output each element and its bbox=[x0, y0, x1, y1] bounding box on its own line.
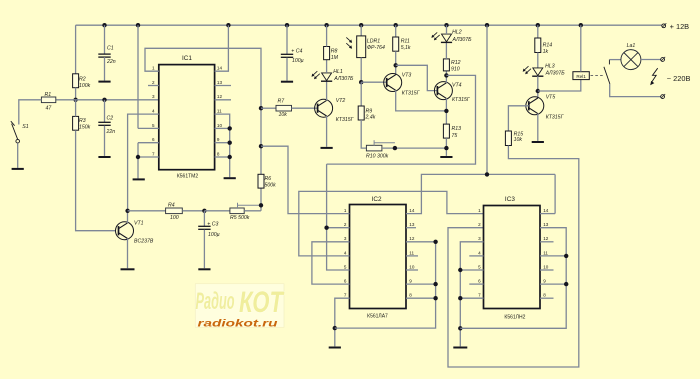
wire R9 to R10 bbox=[361, 120, 366, 148]
svg-text:2,4k: 2,4k bbox=[365, 115, 376, 121]
svg-text:4: 4 bbox=[152, 109, 155, 114]
ground VT2 bbox=[321, 147, 333, 149]
wire rail to R11 bbox=[395, 25, 397, 37]
wire VT4 emitter to R13 bbox=[445, 98, 447, 124]
wire IC3 pin14 riser bbox=[554, 174, 556, 213]
svg-text:14: 14 bbox=[409, 208, 415, 213]
wire R7 to VT2 base bbox=[292, 107, 318, 109]
relay Rel1 bbox=[573, 72, 589, 80]
wire R2 to node A bbox=[75, 88, 77, 100]
wire R12 to HL2 bbox=[445, 42, 447, 59]
svg-text:R8: R8 bbox=[331, 48, 338, 54]
svg-text:VT1: VT1 bbox=[134, 221, 144, 227]
capacitor C4 polar bbox=[281, 53, 293, 55]
svg-text:R5 500k: R5 500k bbox=[230, 215, 250, 221]
svg-text:R2: R2 bbox=[79, 77, 86, 83]
svg-text:1: 1 bbox=[344, 208, 347, 213]
wire node B to IC2 pin1 bbox=[261, 146, 350, 213]
svg-text:2: 2 bbox=[344, 222, 347, 227]
svg-text:6: 6 bbox=[152, 137, 155, 142]
wire VT2 emitter to ground bbox=[326, 116, 328, 147]
svg-text:Радио: Радио bbox=[196, 288, 235, 315]
svg-text:R12: R12 bbox=[451, 60, 461, 66]
wire rail to R14 bbox=[537, 25, 539, 38]
svg-text:HL1: HL1 bbox=[333, 69, 343, 75]
resistor R9 bbox=[358, 106, 364, 120]
svg-text:R11: R11 bbox=[401, 39, 410, 45]
potentiometer R5 bbox=[230, 208, 244, 214]
svg-text:ФР-764: ФР-764 bbox=[367, 45, 385, 51]
svg-text:HL3: HL3 bbox=[545, 63, 555, 69]
ground C4 bbox=[281, 81, 293, 83]
ground VT5 bbox=[532, 141, 544, 143]
transistor VT4 bbox=[434, 82, 452, 100]
wire IC3 pin13 loop to ground bus bbox=[460, 228, 566, 329]
svg-text:9: 9 bbox=[543, 279, 546, 284]
svg-text:100k: 100k bbox=[79, 83, 91, 89]
node B dot R7 branch bbox=[259, 106, 263, 110]
node D (LDR1/R9/VT3 base) bbox=[359, 80, 363, 84]
svg-text:IC3: IC3 bbox=[505, 196, 515, 203]
node common emitter junction bbox=[444, 109, 448, 113]
wire C3 to ground bbox=[203, 230, 205, 269]
svg-text:4: 4 bbox=[344, 250, 347, 255]
capacitor C1 bbox=[98, 53, 110, 55]
svg-text:9: 9 bbox=[409, 279, 412, 284]
svg-text:14: 14 bbox=[543, 208, 549, 213]
svg-text:R7: R7 bbox=[278, 99, 286, 105]
wire R10 to ground node bbox=[382, 147, 447, 149]
resistor R14 bbox=[535, 38, 541, 53]
wire rail to LDR1 bbox=[360, 25, 362, 36]
svg-text:22n: 22n bbox=[106, 129, 116, 135]
svg-text:R13: R13 bbox=[452, 126, 462, 132]
node IC2 pin8 bbox=[433, 296, 437, 300]
svg-text:1: 1 bbox=[152, 66, 155, 71]
resistor R7 bbox=[276, 105, 292, 111]
wire IC3 pin4 stub bbox=[469, 255, 483, 257]
svg-text:12: 12 bbox=[409, 236, 415, 241]
svg-text:КТ315Г: КТ315Г bbox=[402, 91, 421, 97]
op IC3 body bbox=[484, 206, 541, 309]
svg-text:IC1: IC1 bbox=[182, 55, 192, 62]
svg-text:R1: R1 bbox=[45, 92, 52, 98]
wire VT3 collector to VT4 base bbox=[396, 65, 438, 90]
switch relay contact bbox=[608, 60, 610, 65]
node IC2 pin9 bbox=[433, 282, 437, 286]
lightning mains symbol bbox=[652, 68, 658, 82]
svg-text:Rel1: Rel1 bbox=[576, 74, 586, 79]
resistor R15 bbox=[505, 131, 511, 146]
wire R13 to ground bbox=[445, 138, 447, 156]
wire LDR1 to node D bbox=[360, 58, 362, 83]
svg-text:BC237B: BC237B bbox=[134, 239, 154, 245]
svg-text:22n: 22n bbox=[106, 59, 116, 65]
svg-text:10k: 10k bbox=[279, 112, 288, 118]
svg-text:7: 7 bbox=[478, 293, 481, 298]
svg-text:13: 13 bbox=[409, 222, 415, 227]
ground IC1 pins 6-7 bbox=[133, 178, 145, 180]
svg-text:100µ: 100µ bbox=[292, 58, 304, 64]
terminal +12V bbox=[662, 24, 666, 28]
wire IC1 pin13 stub bbox=[215, 85, 231, 87]
svg-text:6: 6 bbox=[478, 279, 481, 284]
wire node A to C2 bbox=[104, 100, 106, 123]
wire IC3 pin6 stub bbox=[469, 283, 483, 285]
wire IC1 pin14 to rail bbox=[215, 25, 229, 71]
node IC2 pin12 bbox=[433, 240, 437, 244]
svg-text:radiokot.ru: radiokot.ru bbox=[198, 317, 279, 329]
svg-text:9: 9 bbox=[217, 137, 220, 142]
wire contact to lamp bbox=[609, 59, 621, 61]
svg-text:R6: R6 bbox=[265, 176, 272, 182]
svg-text:+ C3: + C3 bbox=[207, 222, 218, 228]
wire rail to R2 bbox=[75, 25, 77, 74]
svg-text:VT4: VT4 bbox=[452, 83, 462, 89]
wire lamp to upper terminal bbox=[641, 59, 661, 61]
svg-text:910: 910 bbox=[451, 66, 460, 72]
svg-text:LDR1: LDR1 bbox=[367, 39, 380, 45]
op IC1 body bbox=[159, 65, 215, 170]
svg-text:5: 5 bbox=[152, 123, 155, 128]
svg-text:КТ315Г: КТ315Г bbox=[546, 115, 565, 121]
wire VT4 collector to IC2 inputs bbox=[327, 75, 476, 164]
svg-text:11: 11 bbox=[543, 250, 548, 255]
op IC2 body bbox=[350, 205, 407, 309]
wire C4 to ground bbox=[286, 58, 288, 81]
wire IC3 pin12 stub bbox=[540, 241, 554, 243]
svg-text:КОТ: КОТ bbox=[239, 286, 285, 319]
svg-text:11: 11 bbox=[409, 250, 414, 255]
wire VT5 emitter to ground bbox=[537, 114, 539, 141]
ground IC2 bbox=[329, 347, 341, 349]
svg-text:500k: 500k bbox=[265, 182, 277, 188]
svg-text:S1: S1 bbox=[22, 124, 28, 130]
node IC1 pin10 bbox=[228, 126, 232, 130]
wire C2 to ground bbox=[104, 126, 106, 156]
wire node to R4 bbox=[128, 210, 166, 212]
wire IC1 pin6 pin7 to ground bbox=[138, 142, 159, 144]
svg-text:7: 7 bbox=[344, 293, 347, 298]
lamp La1 bbox=[621, 50, 641, 70]
svg-text:10: 10 bbox=[543, 264, 549, 269]
svg-text:10k: 10k bbox=[514, 137, 523, 143]
node VT4 collector junction bbox=[444, 73, 448, 77]
wire R4 to C3 node bbox=[182, 210, 204, 212]
wire VT4 collector to R12 bbox=[445, 71, 447, 83]
svg-text:К561ЛА7: К561ЛА7 bbox=[367, 313, 388, 319]
node Vdd line junction bbox=[485, 172, 489, 176]
wire IC1 pin1 feedback to node B bbox=[145, 48, 261, 174]
node C3 junction bbox=[202, 209, 206, 213]
svg-text:150k: 150k bbox=[79, 124, 91, 130]
node B dot IC2 pin1 branch bbox=[259, 144, 263, 148]
led HL3 bbox=[533, 68, 543, 76]
svg-text:АЛ307Б: АЛ307Б bbox=[333, 76, 354, 82]
node VT3 collector junction bbox=[394, 63, 398, 67]
wire IC2 ground bus pins 8 9 12 bbox=[335, 242, 436, 328]
wire R14 to HL3 bbox=[537, 53, 539, 68]
wire IC2 pin3 to pin6 bbox=[312, 242, 350, 284]
svg-text:5: 5 bbox=[478, 264, 481, 269]
svg-text:4: 4 bbox=[478, 250, 481, 255]
svg-text:3: 3 bbox=[344, 236, 347, 241]
node R5 wiper junction bbox=[259, 203, 263, 207]
wire IC2 pin4 to IC3 pin1 bbox=[299, 191, 484, 256]
svg-text:C1: C1 bbox=[107, 46, 114, 52]
svg-text:КТ315Г: КТ315Г bbox=[336, 117, 355, 123]
wire IC2 pins2-5 tie to VT4 output bbox=[327, 164, 350, 270]
wire IC1 pin5 to +12V bbox=[137, 25, 139, 128]
node R10 wiper junction bbox=[393, 146, 397, 150]
wire R11 to VT3 collector bbox=[395, 51, 397, 75]
wire IC1 pin4 to VT1 collector node bbox=[128, 114, 159, 211]
node A (R1/R2/R3 junction) bbox=[73, 98, 77, 102]
wire rail to C1 bbox=[104, 25, 106, 54]
wire IC2 pin11 stub bbox=[406, 255, 418, 257]
svg-text:100µ: 100µ bbox=[208, 232, 220, 238]
wire node D to VT3 base bbox=[361, 81, 387, 83]
wire HL1 to R8 bbox=[326, 60, 328, 73]
wire C3 node to R5 bbox=[204, 210, 230, 212]
svg-text:3: 3 bbox=[478, 236, 481, 241]
wire IC3 pin10 stub bbox=[540, 269, 554, 271]
node R13 ground junction bbox=[444, 146, 448, 150]
svg-text:5: 5 bbox=[344, 264, 347, 269]
led HL1 bbox=[322, 73, 332, 81]
ground VT1 bbox=[121, 268, 135, 270]
ground S1 bbox=[12, 168, 24, 170]
wire VT1 collector bbox=[127, 211, 129, 223]
svg-text:К561ЛН2: К561ЛН2 bbox=[504, 314, 525, 320]
wire node B to R7 bbox=[261, 107, 276, 109]
svg-text:3: 3 bbox=[152, 94, 155, 99]
wire +12V rail bbox=[76, 24, 662, 26]
wire IC2 pin13 stub bbox=[406, 227, 416, 229]
node IC3 ground junction bbox=[458, 326, 462, 330]
svg-text:5,1k: 5,1k bbox=[401, 45, 411, 51]
wire VT1 emitter to ground bbox=[127, 239, 129, 269]
wire R1 to S1 bbox=[19, 100, 42, 125]
svg-text:7: 7 bbox=[152, 151, 155, 156]
switch S1 bbox=[11, 121, 15, 126]
resistor R11 bbox=[393, 37, 399, 51]
wire IC2 pin7 to ground bbox=[335, 298, 350, 346]
potentiometer R10 bbox=[366, 145, 382, 151]
svg-text:8: 8 bbox=[217, 151, 220, 156]
node IC2 pin2 junction bbox=[324, 226, 328, 230]
svg-text:13: 13 bbox=[543, 222, 549, 227]
ground IC3 bbox=[453, 347, 467, 349]
svg-text:12: 12 bbox=[217, 94, 223, 99]
resistor R3 bbox=[73, 116, 79, 130]
node C2 junction bbox=[102, 98, 106, 102]
wire rail to C4 bbox=[286, 25, 288, 54]
ground C3 bbox=[198, 268, 210, 270]
node IC3 pin9 bbox=[564, 282, 568, 286]
ground C2 bbox=[98, 156, 110, 158]
wire node D to R9 bbox=[360, 82, 362, 106]
watermark radiokot bbox=[195, 284, 284, 328]
svg-text:VT2: VT2 bbox=[336, 98, 346, 104]
wire IC3 pins 3 5 7 ground bus bbox=[460, 242, 483, 347]
svg-text:VT3: VT3 bbox=[402, 73, 412, 79]
svg-text:La1: La1 bbox=[627, 43, 636, 49]
svg-text:10: 10 bbox=[217, 123, 223, 128]
svg-text:+ C4: + C4 bbox=[291, 49, 302, 55]
wire Rel1 to rail bbox=[580, 25, 582, 71]
wire IC1 pins 11-8 bus to ground bbox=[215, 114, 230, 177]
wire R5 to R6 bottom bbox=[244, 210, 261, 212]
node IC1 pin9 bbox=[228, 141, 232, 145]
node IC3 pin7 bbox=[458, 296, 462, 300]
node IC3 pin5 bbox=[458, 268, 462, 272]
wire VT5 base to R15 bbox=[508, 106, 528, 131]
svg-text:1: 1 bbox=[478, 208, 481, 213]
capacitor C3 polar bbox=[203, 211, 205, 227]
led HL2 bbox=[442, 34, 452, 42]
resistor R8 bbox=[324, 47, 330, 60]
wire S1 to ground bbox=[17, 143, 19, 168]
wire C1 to ground bbox=[104, 57, 106, 80]
wire HL2 to rail bbox=[446, 25, 448, 34]
svg-text:R3: R3 bbox=[79, 118, 86, 124]
ground IC1 pins 11-8 bbox=[224, 177, 236, 179]
svg-text:8: 8 bbox=[409, 293, 412, 298]
wire IC2 pin14 to +12V bbox=[406, 174, 555, 213]
svg-text:HL2: HL2 bbox=[452, 29, 462, 35]
wire node A to R3 bbox=[75, 100, 77, 117]
svg-text:14: 14 bbox=[217, 66, 223, 71]
svg-text:1k: 1k bbox=[543, 49, 549, 55]
wire relay actuation dashed link bbox=[591, 74, 604, 76]
svg-text:R4: R4 bbox=[168, 203, 175, 209]
node +12V junction dots bbox=[102, 23, 106, 27]
wire contact to lower terminal bbox=[610, 84, 661, 97]
wire R15 to IC3 pin2 route bbox=[448, 146, 579, 368]
svg-text:R14: R14 bbox=[543, 42, 553, 48]
svg-text:~ 220В: ~ 220В bbox=[667, 74, 691, 83]
svg-text:100: 100 bbox=[170, 215, 179, 221]
ground C1 bbox=[98, 81, 110, 83]
wire HL3 to VT5 collector bbox=[537, 76, 539, 98]
wire VT3 emitter to common emitter node bbox=[396, 90, 447, 111]
svg-text:VT5: VT5 bbox=[546, 94, 556, 100]
node IC1 pin8 bbox=[228, 155, 232, 159]
resistor R2 bbox=[73, 74, 79, 88]
svg-text:11: 11 bbox=[217, 109, 222, 114]
resistor R12 bbox=[443, 59, 449, 71]
terminal 220V lower bbox=[661, 95, 665, 99]
svg-text:АЛ307Б: АЛ307Б bbox=[452, 37, 473, 43]
node IC1 pin7 junction bbox=[136, 155, 140, 159]
svg-text:13: 13 bbox=[217, 80, 223, 85]
wire IC1 pin12 stub bbox=[215, 99, 231, 101]
svg-text:R10 300k: R10 300k bbox=[366, 153, 389, 159]
svg-text:+ 12В: + 12В bbox=[670, 22, 690, 31]
transistor VT3 bbox=[384, 74, 402, 92]
capacitor C2 bbox=[98, 121, 110, 123]
wire IC2 pin10 stub bbox=[406, 269, 418, 271]
transistor VT2 bbox=[315, 99, 333, 117]
wire IC3 pin8 stub bbox=[540, 297, 554, 299]
transistor VT5 bbox=[526, 97, 544, 115]
svg-text:C2: C2 bbox=[107, 116, 114, 122]
node IC2 ground junction bbox=[333, 326, 337, 330]
terminal 220V upper bbox=[661, 58, 665, 62]
resistor R4 bbox=[166, 208, 183, 214]
svg-text:10: 10 bbox=[409, 264, 415, 269]
wire node A line to IC1 pin3 bbox=[56, 99, 159, 101]
photoresistor LDR1 bbox=[357, 36, 366, 58]
wire +12V riser to Vdd line bbox=[486, 25, 488, 174]
wire IC1 pin2 stub bbox=[148, 85, 159, 87]
node VT1 collector junction bbox=[125, 209, 129, 213]
svg-text:К561ТМ2: К561ТМ2 bbox=[177, 173, 198, 179]
transistor VT1 bbox=[116, 222, 134, 240]
svg-text:12: 12 bbox=[543, 236, 549, 241]
wire VT5 collector to relay Rel1 bbox=[538, 80, 581, 91]
svg-text:6: 6 bbox=[344, 279, 347, 284]
svg-text:IC2: IC2 bbox=[372, 196, 382, 203]
svg-text:КТ315Г: КТ315Г bbox=[452, 97, 471, 103]
ground R13 bbox=[440, 156, 452, 158]
node IC3 pin11 bbox=[564, 254, 568, 258]
svg-text:АЛ307Б: АЛ307Б bbox=[545, 70, 566, 76]
wire R8 to rail bbox=[326, 25, 328, 46]
wire VT2 collector to HL1 bbox=[326, 81, 328, 100]
svg-text:1M: 1M bbox=[331, 55, 339, 61]
svg-text:2: 2 bbox=[478, 222, 481, 227]
resistor R13 bbox=[443, 124, 449, 138]
node VT5 collector junction bbox=[536, 89, 540, 93]
svg-text:2: 2 bbox=[152, 80, 155, 85]
resistor R1 bbox=[41, 97, 55, 103]
wire R3 to VT1 base bbox=[76, 130, 116, 231]
resistor R6 bbox=[258, 174, 264, 188]
svg-text:8: 8 bbox=[543, 293, 546, 298]
svg-text:75: 75 bbox=[452, 133, 458, 139]
